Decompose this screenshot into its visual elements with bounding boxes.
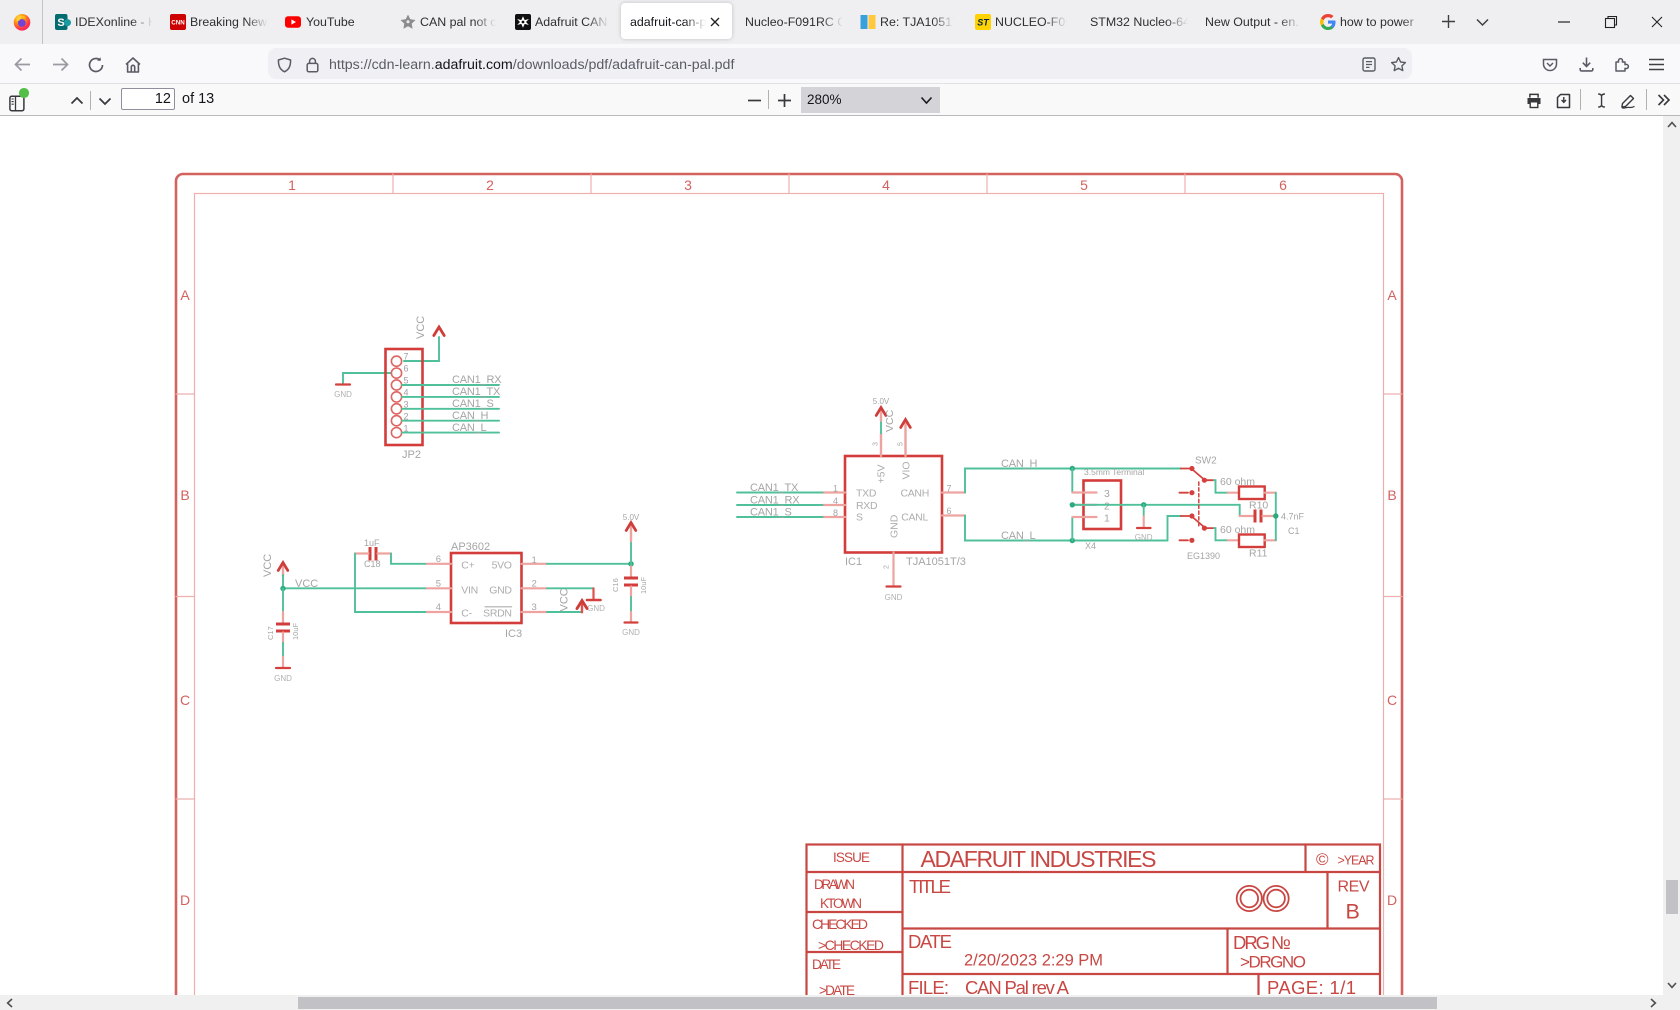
svg-text:3: 3 bbox=[1104, 488, 1110, 500]
svg-text:CAN_L: CAN_L bbox=[1001, 530, 1036, 542]
connector JP2 bbox=[386, 349, 423, 461]
IC1 left pin stubs bbox=[823, 493, 846, 518]
svg-text:GND: GND bbox=[622, 628, 640, 637]
wire VCC to C17 bbox=[282, 589, 284, 623]
wire net CAN1_RX (JP2) bbox=[402, 384, 499, 386]
window restore bbox=[1604, 15, 1618, 29]
svg-text:CAN1_S: CAN1_S bbox=[750, 507, 792, 519]
junction 5VO/C16 bbox=[628, 561, 633, 566]
tab New Output bbox=[1205, 15, 1301, 29]
forward arrow bbox=[51, 56, 70, 73]
tab CAN pal (star) bbox=[400, 14, 416, 30]
svg-text:A: A bbox=[1387, 287, 1397, 303]
svg-text:4.7nF: 4.7nF bbox=[1281, 512, 1305, 522]
zoom in bbox=[777, 93, 792, 108]
op-amp regulator IC3 AP3602 bbox=[427, 541, 547, 640]
svg-text:ADAFRUIT INDUSTRIES: ADAFRUIT INDUSTRIES bbox=[921, 846, 1157, 872]
wire C16 to GND bbox=[630, 587, 632, 623]
active tab bbox=[621, 3, 732, 39]
svg-text:VCC: VCC bbox=[559, 588, 571, 611]
svg-text:X4: X4 bbox=[1085, 541, 1096, 551]
wire SW2 upper to R10 bbox=[1214, 480, 1228, 493]
supply symbol 5.0V (IC1) bbox=[873, 397, 890, 421]
capacitor C1 4.7nF bbox=[1254, 510, 1305, 537]
svg-text:10uF: 10uF bbox=[291, 622, 300, 640]
wire terminal pin 2 net bbox=[1072, 504, 1239, 506]
svg-text:GND: GND bbox=[1135, 533, 1153, 542]
resistor R11 60 ohm bbox=[1220, 524, 1276, 560]
wire CAN_L to terminal pin 1 bbox=[1071, 517, 1073, 541]
wire net CAN1_TX (JP2) bbox=[402, 396, 499, 398]
frame column labels 1-6 bbox=[288, 177, 1287, 193]
svg-text:C: C bbox=[180, 692, 190, 708]
svg-text:TITLE: TITLE bbox=[909, 876, 951, 897]
wire C18 to IC3 C- bbox=[355, 554, 427, 613]
junction terminal pin2 (left) bbox=[1070, 502, 1075, 507]
wire net CAN1_TX (IC1) bbox=[737, 492, 823, 494]
wire pin2 branch to GND bbox=[1143, 505, 1145, 528]
ground symbol (terminal) bbox=[1135, 528, 1153, 542]
wire net CAN_H (JP2) bbox=[402, 420, 499, 422]
tab YouTube bbox=[285, 14, 301, 30]
tab IDEXonline bbox=[55, 14, 71, 30]
svg-text:C16: C16 bbox=[611, 578, 620, 592]
junction C1 right bbox=[1273, 513, 1278, 518]
IC1 pin numbers 1 4 8 bbox=[833, 483, 838, 518]
supply symbol VCC (IC1 VIO) bbox=[884, 409, 910, 432]
svg-text:3: 3 bbox=[873, 442, 880, 446]
wire JP2 pin6 to GND bbox=[343, 373, 392, 384]
svg-text:GND: GND bbox=[885, 593, 903, 602]
pin 3 VCC stub to 5.0V (IC1) bbox=[873, 421, 882, 456]
draw icon bbox=[1620, 93, 1637, 109]
svg-text:DATE: DATE bbox=[812, 957, 841, 972]
svg-text:©: © bbox=[1316, 850, 1329, 869]
svg-text:GND: GND bbox=[334, 390, 352, 399]
svg-text:RXD: RXD bbox=[856, 500, 878, 512]
tab how to power (Google) bbox=[1320, 14, 1336, 30]
tab list chevron bbox=[1475, 17, 1490, 27]
svg-text:5: 5 bbox=[1080, 177, 1088, 193]
pin 5 VIO stub (IC1) bbox=[898, 424, 906, 456]
wire C17 to GND bbox=[282, 633, 284, 668]
supply symbol VCC (JP2) bbox=[415, 316, 444, 348]
svg-text:VIN: VIN bbox=[461, 584, 478, 596]
svg-text:ISSUE: ISSUE bbox=[833, 850, 870, 865]
page number input bbox=[121, 88, 175, 110]
url bar bbox=[268, 48, 1412, 79]
junction CAN_L / terminal pin1 bbox=[1070, 538, 1075, 543]
downloads icon bbox=[1578, 56, 1595, 73]
svg-text:CAN1_RX: CAN1_RX bbox=[750, 495, 800, 507]
svg-text:DRAWN: DRAWN bbox=[814, 877, 855, 892]
terminal block X4 3.5mm Terminal bbox=[1073, 467, 1145, 551]
print icon bbox=[1526, 93, 1542, 109]
svg-text:2: 2 bbox=[884, 565, 891, 569]
svg-text:3: 3 bbox=[684, 177, 692, 193]
svg-text:3: 3 bbox=[532, 602, 537, 613]
IC1 right pin stubs 7 6 bbox=[942, 483, 965, 516]
svg-text:5.0V: 5.0V bbox=[873, 397, 890, 406]
svg-text:VCC: VCC bbox=[295, 578, 318, 590]
svg-text:1: 1 bbox=[532, 555, 537, 566]
svg-text:JP2: JP2 bbox=[402, 449, 421, 461]
lock icon bbox=[306, 57, 319, 73]
svg-text:CANL: CANL bbox=[901, 512, 928, 524]
shield icon bbox=[277, 57, 292, 73]
wire net CAN_L bus bbox=[965, 516, 1168, 541]
ground symbol (C16) bbox=[622, 623, 640, 638]
pocket icon bbox=[1542, 57, 1558, 72]
window close bbox=[1651, 16, 1663, 28]
svg-text:B: B bbox=[1346, 900, 1360, 924]
svg-text:B: B bbox=[1387, 487, 1396, 503]
svg-text:2: 2 bbox=[1104, 501, 1110, 513]
svg-text:VCC: VCC bbox=[262, 554, 274, 577]
svg-text:CAN_H: CAN_H bbox=[452, 410, 489, 422]
svg-text:7: 7 bbox=[947, 483, 952, 493]
svg-text:5: 5 bbox=[436, 579, 441, 590]
svg-text:AP3602: AP3602 bbox=[451, 541, 490, 553]
svg-text:CAN1_TX: CAN1_TX bbox=[750, 482, 799, 494]
svg-text:CAN1_RX: CAN1_RX bbox=[452, 374, 502, 386]
svg-text:VIO: VIO bbox=[901, 461, 913, 479]
svg-text:+5V: +5V bbox=[876, 465, 888, 484]
svg-text:R11: R11 bbox=[1249, 548, 1268, 560]
svg-text:4: 4 bbox=[882, 177, 890, 193]
sheet frame outer border bbox=[176, 174, 1402, 1010]
transceiver IC1 TJA1051T/3 bbox=[845, 456, 966, 568]
tab Adafruit CAN bbox=[515, 14, 531, 30]
svg-text:CAN1_TX: CAN1_TX bbox=[452, 386, 501, 398]
junction VCC/C17 bbox=[280, 586, 285, 591]
ground symbol (C17) bbox=[274, 668, 292, 683]
svg-text:ST: ST bbox=[977, 18, 990, 28]
zoom out bbox=[747, 99, 762, 102]
new tab + bbox=[1440, 13, 1457, 30]
svg-text:DRG №: DRG № bbox=[1233, 932, 1291, 953]
svg-text:TXD: TXD bbox=[856, 487, 877, 499]
svg-text:EG1390: EG1390 bbox=[1187, 551, 1220, 561]
IC1 GND pin stub bbox=[884, 553, 894, 587]
svg-text:5VO: 5VO bbox=[492, 560, 512, 572]
svg-text:GND: GND bbox=[587, 604, 605, 613]
wire net CAN1_RX (IC1) bbox=[737, 504, 823, 506]
navigation toolbar bbox=[0, 44, 1680, 84]
sidebar toggle icon bbox=[9, 95, 25, 112]
svg-text:SW2: SW2 bbox=[1195, 456, 1217, 467]
svg-text:>YEAR: >YEAR bbox=[1338, 854, 1375, 868]
svg-text:4: 4 bbox=[436, 602, 441, 613]
frame row ticks bbox=[176, 394, 1402, 799]
svg-text:C1: C1 bbox=[1288, 526, 1300, 536]
svg-text:GND: GND bbox=[889, 514, 901, 538]
svg-text:VCC: VCC bbox=[415, 316, 427, 339]
svg-text:>CHECKED: >CHECKED bbox=[818, 937, 884, 953]
svg-text:C17: C17 bbox=[266, 626, 275, 640]
svg-text:S: S bbox=[57, 17, 64, 29]
vertical scrollbar bbox=[1663, 116, 1680, 995]
svg-text:C+: C+ bbox=[461, 560, 474, 572]
svg-text:8: 8 bbox=[833, 508, 838, 518]
capacitor C17 10uF bbox=[266, 622, 300, 640]
wire SW2 lower to R11 bbox=[1214, 528, 1228, 540]
junction pin2/GND branch bbox=[1141, 502, 1146, 507]
zoom select bbox=[801, 87, 940, 113]
svg-text:CAN1_S: CAN1_S bbox=[452, 398, 494, 410]
title block texts bbox=[812, 846, 1375, 998]
svg-text:1: 1 bbox=[1104, 513, 1110, 525]
back arrow bbox=[13, 56, 32, 73]
svg-text:CANH: CANH bbox=[900, 487, 929, 499]
junction CAN_H / terminal pin3 bbox=[1070, 466, 1075, 471]
svg-text:5: 5 bbox=[404, 376, 409, 386]
svg-text:REV: REV bbox=[1338, 879, 1370, 896]
svg-text:C18: C18 bbox=[364, 559, 381, 569]
svg-text:6: 6 bbox=[947, 506, 952, 516]
wire VCC to IC3 VIN bbox=[283, 575, 427, 589]
sheet frame inner border bbox=[195, 194, 1384, 1010]
tab Nucleo-F091RC bbox=[745, 15, 843, 29]
save icon bbox=[1555, 93, 1572, 109]
horizontal scrollbar bbox=[0, 995, 1663, 1010]
capacitor C18 1uF bbox=[355, 538, 391, 569]
svg-text:5.0V: 5.0V bbox=[623, 513, 640, 522]
more tools chevrons bbox=[1657, 94, 1671, 106]
svg-text:2: 2 bbox=[486, 177, 494, 193]
capacitor C16 10uF bbox=[611, 564, 648, 594]
reload bbox=[87, 56, 105, 74]
ground symbol (IC3 pin2) bbox=[587, 600, 605, 613]
wire net CAN_L (JP2) bbox=[402, 432, 499, 434]
menu hamburger bbox=[1648, 58, 1665, 71]
resistor R10 60 ohm bbox=[1220, 476, 1276, 512]
svg-text:VCC: VCC bbox=[884, 409, 896, 432]
frame row labels A-D bbox=[180, 287, 1397, 908]
svg-text:CNN: CNN bbox=[171, 20, 185, 27]
wire net CAN1_S (IC1) bbox=[737, 516, 823, 518]
svg-text:IC3: IC3 bbox=[505, 628, 522, 640]
pdf viewer toolbar bbox=[0, 84, 1680, 116]
page up bbox=[70, 96, 84, 105]
svg-text:CAN_L: CAN_L bbox=[452, 422, 487, 434]
wire net CAN1_S (JP2) bbox=[402, 408, 499, 410]
svg-text:A: A bbox=[180, 287, 190, 303]
svg-text:KTOWN: KTOWN bbox=[820, 896, 862, 911]
svg-text:IC1: IC1 bbox=[845, 556, 862, 568]
wire CAN_L riser to SW2 bbox=[1168, 516, 1181, 541]
wire CAN_H to terminal pin 3 bbox=[1071, 469, 1073, 493]
svg-text:6: 6 bbox=[1279, 177, 1287, 193]
tab STM32 Nucleo-64 bbox=[1090, 15, 1188, 29]
svg-text:CHECKED: CHECKED bbox=[812, 916, 868, 932]
bookmark star bbox=[1390, 56, 1407, 73]
supply symbol VCC (IC3 SRDN) bbox=[559, 588, 588, 612]
svg-text:D: D bbox=[1387, 892, 1397, 908]
svg-text:2: 2 bbox=[532, 579, 537, 590]
svg-text:6: 6 bbox=[436, 554, 441, 565]
svg-text:1uF: 1uF bbox=[364, 538, 380, 548]
home bbox=[124, 56, 142, 74]
logo circles bbox=[1237, 886, 1289, 911]
reader view icon bbox=[1362, 57, 1376, 72]
ground symbol (JP2) bbox=[334, 385, 352, 400]
svg-text:6: 6 bbox=[404, 364, 409, 374]
svg-text:1: 1 bbox=[288, 177, 296, 193]
title block bbox=[807, 845, 1381, 1010]
page down bbox=[98, 97, 112, 106]
wire pin2 net to C1 bbox=[1240, 505, 1254, 516]
svg-text:1: 1 bbox=[833, 483, 838, 493]
wire JP2 pin7 to VCC bbox=[404, 348, 439, 361]
scrollbar corner bbox=[1663, 995, 1680, 1010]
svg-text:B: B bbox=[180, 487, 189, 503]
wire IC3 SRDN to VCC bbox=[547, 611, 581, 613]
svg-text:C-: C- bbox=[461, 607, 472, 619]
svg-text:C: C bbox=[1387, 692, 1397, 708]
svg-text:3.5mm Terminal: 3.5mm Terminal bbox=[1084, 467, 1144, 477]
wire IC3 GND pin to ground bbox=[547, 588, 594, 599]
svg-text:5: 5 bbox=[898, 442, 905, 446]
svg-text:D: D bbox=[180, 892, 190, 908]
svg-text:S: S bbox=[856, 512, 863, 524]
wire R10/R11/C1 right bus bbox=[1275, 493, 1277, 541]
wire C18 to IC3 C+ bbox=[391, 554, 427, 564]
svg-text:>DRGNO: >DRGNO bbox=[1240, 953, 1306, 972]
svg-text:GND: GND bbox=[274, 674, 292, 683]
svg-text:DATE: DATE bbox=[908, 931, 952, 952]
firefox logo button bbox=[13, 13, 31, 31]
svg-text:4: 4 bbox=[833, 496, 838, 506]
supply symbol VCC (IC3 input) bbox=[262, 554, 288, 577]
svg-text:SRDN: SRDN bbox=[483, 607, 512, 619]
ground symbol (IC1) bbox=[885, 587, 903, 603]
text select icon bbox=[1595, 92, 1608, 109]
extensions puzzle icon bbox=[1613, 56, 1630, 73]
window minimize bbox=[1558, 21, 1571, 23]
svg-text:GND: GND bbox=[489, 584, 512, 596]
svg-text:CAN_H: CAN_H bbox=[1001, 458, 1038, 470]
svg-text:2/20/2023 2:29 PM: 2/20/2023 2:29 PM bbox=[964, 952, 1103, 970]
svg-text:7: 7 bbox=[404, 352, 409, 362]
supply symbol 5.0V (IC3) bbox=[623, 513, 640, 564]
wire IC3 5VO to 5.0V bbox=[547, 563, 631, 565]
tab Re: TJA1051 bbox=[860, 14, 876, 30]
tab NUCLEO-F091 (ST) bbox=[975, 14, 991, 30]
svg-text:10uF: 10uF bbox=[639, 576, 648, 594]
tab Breaking News (CNN) bbox=[170, 14, 186, 30]
wire net CAN_H bus bbox=[965, 469, 1181, 493]
switch SW2 EG1390 bbox=[1179, 456, 1220, 562]
frame column ticks bbox=[393, 174, 1185, 194]
svg-text:TJA1051T/3: TJA1051T/3 bbox=[906, 556, 966, 568]
browser tab bar bbox=[0, 0, 1680, 44]
svg-text:R10: R10 bbox=[1249, 500, 1268, 512]
url text bbox=[329, 57, 734, 73]
